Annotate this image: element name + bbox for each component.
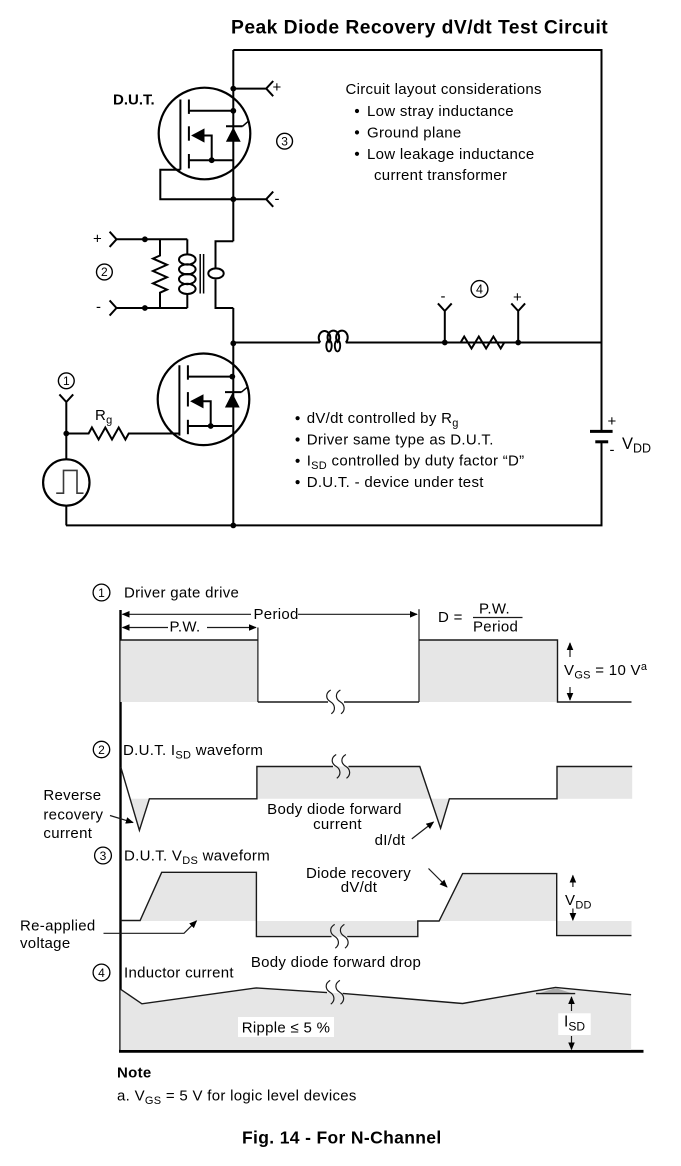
svg-text:Period: Period (254, 606, 299, 623)
svg-text:Note: Note (117, 1064, 152, 1081)
svg-text:Circuit layout considerations: Circuit layout considerations (346, 81, 542, 98)
svg-text:2: 2 (101, 265, 108, 279)
svg-text:Period: Period (473, 619, 518, 636)
svg-text:Low stray inductance: Low stray inductance (367, 103, 514, 120)
svg-text:1: 1 (98, 586, 105, 600)
svg-text:+: + (513, 289, 522, 306)
svg-text:+: + (93, 231, 102, 248)
svg-text:Body diode forward drop: Body diode forward drop (251, 954, 421, 971)
svg-text:1: 1 (63, 374, 70, 388)
svg-text:3: 3 (281, 134, 288, 148)
svg-text:-: - (275, 191, 280, 208)
svg-text:2: 2 (98, 743, 105, 757)
svg-text:D.U.T. ISD waveform: D.U.T. ISD waveform (123, 742, 263, 762)
svg-text:P.W.: P.W. (170, 619, 201, 636)
svg-text:Peak Diode Recovery dV/dt Test: Peak Diode Recovery dV/dt Test Circuit (231, 17, 608, 38)
svg-text:Driver gate drive: Driver gate drive (124, 584, 239, 601)
svg-text:-: - (610, 442, 615, 459)
svg-text:Reverse: Reverse (43, 787, 101, 804)
svg-text:current: current (43, 825, 92, 842)
svg-text:4: 4 (98, 966, 105, 980)
svg-text:current transformer: current transformer (374, 167, 507, 184)
svg-text:-: - (96, 299, 101, 316)
svg-text:Low leakage inductance: Low leakage inductance (367, 146, 535, 163)
svg-text:3: 3 (100, 849, 107, 863)
svg-text:+: + (608, 413, 617, 430)
svg-text:D =: D = (438, 609, 463, 626)
svg-text:Driver same type as D.U.T.: Driver same type as D.U.T. (307, 431, 494, 448)
svg-text:ISD controlled by duty factor: ISD controlled by duty factor “D” (307, 453, 525, 473)
svg-text:current: current (313, 816, 362, 833)
svg-text:Inductor current: Inductor current (124, 964, 234, 981)
svg-text:D.U.T.: D.U.T. (113, 92, 155, 109)
svg-text:4: 4 (476, 282, 483, 296)
svg-text:Ground plane: Ground plane (367, 124, 462, 141)
svg-text:Fig. 14 - For N-Channel: Fig. 14 - For N-Channel (242, 1128, 442, 1148)
svg-text:Re-applied: Re-applied (20, 917, 96, 934)
svg-text:voltage: voltage (20, 935, 70, 952)
svg-text:D.U.T. - device under test: D.U.T. - device under test (307, 474, 485, 491)
svg-text:dV/dt: dV/dt (341, 879, 378, 896)
svg-text:Ripple ≤ 5 %: Ripple ≤ 5 % (242, 1019, 331, 1036)
svg-text:recovery: recovery (43, 807, 103, 824)
svg-text:-: - (441, 288, 446, 305)
svg-text:dV/dt controlled by Rg: dV/dt controlled by Rg (307, 410, 459, 430)
svg-text:dI/dt: dI/dt (375, 832, 406, 849)
svg-text:+: + (273, 79, 282, 96)
svg-text:P.W.: P.W. (479, 601, 510, 618)
